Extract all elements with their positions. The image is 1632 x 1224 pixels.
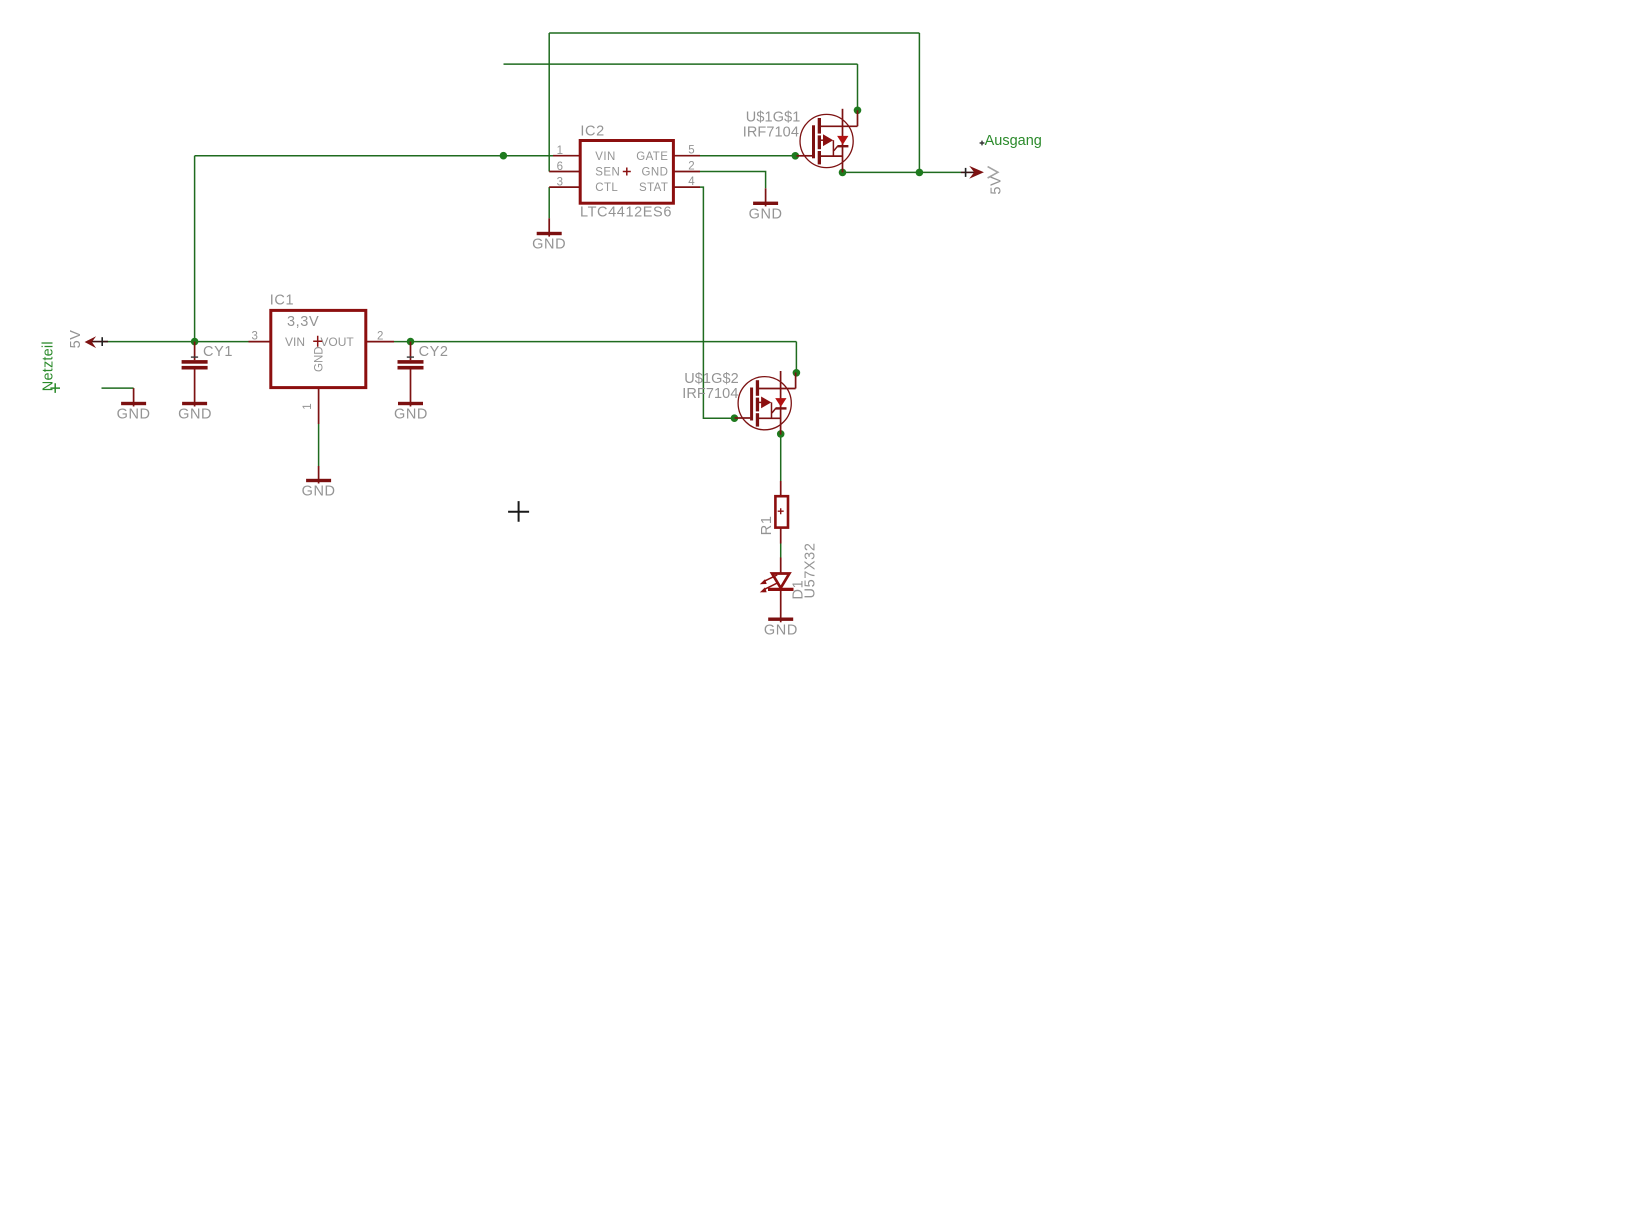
junction dot CY1 [191, 338, 199, 346]
pin CY1 top lead [194, 342, 196, 361]
junction dot Q2 gate [731, 414, 739, 422]
svg-text:3: 3 [557, 176, 563, 188]
svg-text:GND: GND [749, 207, 783, 223]
junction dot output net [916, 169, 924, 177]
wire net N$2 vertical to Q1 drain [857, 64, 859, 110]
led D1 [760, 574, 794, 593]
ground bar IC1 [306, 479, 331, 482]
svg-text:U$1G$1: U$1G$1 [746, 110, 801, 126]
capacitor CY2 [398, 360, 424, 364]
svg-text:GND: GND [394, 407, 428, 423]
svg-text:CY1: CY1 [203, 344, 233, 360]
svg-text:GND: GND [313, 346, 325, 372]
sheet origin cross [508, 501, 529, 522]
pin IC2 STAT stub [673, 186, 700, 188]
wire 3V3 horizontal IC1 VOUT to Q2 [394, 341, 796, 343]
supply arrow 5V output [961, 166, 998, 179]
svg-text:CTL: CTL [595, 182, 618, 194]
ground bar IC2 CTL [537, 232, 562, 235]
svg-text:VIN: VIN [285, 335, 305, 349]
svg-text:6: 6 [557, 161, 563, 173]
svg-text:5V: 5V [68, 329, 84, 348]
svg-text:GND: GND [764, 622, 798, 638]
wire Q2 source down to R1 [780, 434, 782, 481]
pin D1 bottom lead to ground [780, 589, 782, 622]
pin CY1 bottom lead [194, 369, 196, 406]
pin GND lead Netzteil [133, 388, 135, 406]
svg-text:GND: GND [532, 237, 566, 253]
svg-text:4: 4 [688, 176, 695, 188]
svg-text:GND: GND [117, 407, 151, 423]
svg-text:3: 3 [252, 331, 258, 343]
wire IC2 GND pin2 elbow [700, 172, 766, 189]
svg-text:2: 2 [688, 160, 694, 172]
svg-text:CY2: CY2 [419, 344, 449, 360]
power controller IC2 box [580, 141, 673, 204]
svg-text:R1: R1 [759, 515, 775, 535]
resistor R1 [775, 496, 788, 527]
wire net N$1 right vertical [918, 33, 920, 172]
pin IC2 GATE stub [673, 155, 700, 157]
voltage regulator IC1 box [271, 310, 366, 387]
svg-text:GATE: GATE [636, 151, 668, 163]
junction dot CY2 [407, 338, 415, 346]
svg-text:IRF7104: IRF7104 [743, 125, 799, 141]
origin cross IC2 [623, 168, 631, 176]
svg-text:U57X32: U57X32 [803, 543, 819, 599]
pin IC2 CTL stub [549, 186, 580, 188]
junction dot Q2 drain [793, 369, 801, 377]
wire net N$1 top horizontal [549, 32, 919, 34]
ground bar CY2 [398, 402, 423, 405]
svg-text:SEN: SEN [595, 167, 620, 179]
pin D1 top lead [780, 558, 782, 574]
pin GND lead IC1 [318, 466, 320, 484]
pin IC2 SEN stub [549, 171, 580, 173]
wire IC1 GND pin to ground [318, 424, 320, 466]
junction dot Q1 drain [854, 107, 862, 115]
svg-text:1: 1 [557, 145, 563, 157]
svg-text:U$1G$2: U$1G$2 [684, 371, 739, 387]
capacitor CY1 [182, 360, 208, 364]
junction dot Q2 source [777, 430, 785, 438]
wire net N$1 vertical to IC2 SEN [548, 33, 550, 172]
pin IC1 GND stub [318, 388, 320, 424]
svg-text:2: 2 [377, 331, 383, 343]
svg-text:5V: 5V [988, 176, 1004, 195]
wire net N$2 second horizontal [504, 63, 858, 65]
pin R1 top lead [780, 481, 782, 496]
pin IC2 VIN stub [553, 155, 580, 157]
svg-text:IRF7104: IRF7104 [682, 386, 738, 402]
pin IC1 VOUT stub [366, 341, 394, 343]
transistor U$1G$2 IRF7104 p-mosfet [735, 371, 796, 435]
ground bar CY1 [182, 402, 207, 405]
pin IC1 VIN stub [249, 341, 271, 343]
node Ausgang [980, 133, 1042, 149]
transistor U$1G$1 IRF7104 p-mosfet [797, 109, 858, 173]
wire GATE pin5 to Q1 gate [700, 155, 795, 157]
wire 5V horizontal to IC2 VIN [195, 155, 553, 157]
ground bar IC2 pin2 [753, 202, 778, 205]
junction dot VIN net [500, 152, 508, 160]
wire 5V vertical [194, 156, 196, 342]
supply arrow 5V Netzteil [85, 336, 108, 348]
svg-text:VOUT: VOUT [320, 335, 354, 349]
node Netzteil [41, 341, 60, 393]
wire 3V3 vertical to Q2 drain [795, 342, 797, 373]
svg-text:5: 5 [688, 145, 694, 157]
wire R1 to D1 [780, 543, 782, 558]
wire output 5V horizontal [843, 171, 962, 173]
origin cross IC1 [313, 336, 322, 347]
wire 5V Netzteil horizontal [102, 341, 249, 343]
svg-text:LTC4412ES6: LTC4412ES6 [580, 204, 672, 220]
svg-text:1: 1 [302, 403, 314, 409]
svg-text:GND: GND [642, 167, 669, 179]
wire IC2 CTL to ground [548, 187, 550, 218]
pin IC2 GND stub [673, 171, 700, 173]
pin GND lead IC2 pin2 [765, 188, 767, 206]
wire STAT pin4 to Q2 gate [700, 187, 734, 418]
junction dot Q1 gate [792, 152, 800, 160]
pin GND lead CTL [548, 218, 550, 236]
svg-text:Ausgang: Ausgang [985, 133, 1042, 149]
svg-text:IC1: IC1 [270, 293, 294, 309]
svg-text:GND: GND [178, 407, 212, 423]
svg-text:GND: GND [302, 484, 336, 500]
junction dot Q1 source [839, 169, 847, 177]
ground bar Netzteil [121, 402, 146, 405]
wire Netzteil GND elbow [102, 387, 134, 389]
svg-text:3,3V: 3,3V [287, 314, 319, 330]
pin CY2 bottom lead [410, 369, 412, 406]
svg-text:IC2: IC2 [580, 124, 604, 140]
svg-text:VIN: VIN [595, 151, 615, 163]
svg-text:STAT: STAT [639, 182, 668, 194]
pin R1 bottom lead [780, 528, 782, 544]
pin CY2 top lead [410, 342, 412, 361]
svg-text:Netzteil: Netzteil [41, 341, 57, 391]
ground bar D1 [768, 618, 793, 621]
